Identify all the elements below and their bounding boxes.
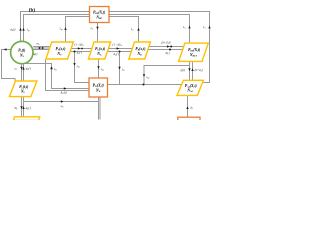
parallelogram P5 larvae: [9, 81, 37, 97]
arrow circle left loop left: [4, 48, 7, 50]
wire P2 to P3 pair: [107, 49, 132, 52]
parallelogram P4: [179, 43, 209, 61]
arrow P1P2 drop down: [73, 63, 75, 66]
center rect P_W: [89, 78, 108, 97]
wire circle bottom zigzag to rect: [23, 64, 90, 89]
parallelogram P3: [129, 42, 151, 59]
svg-text:(1−Δ)λv: (1−Δ)λv: [75, 43, 84, 48]
svg-text:PW(X,t): PW(X,t): [93, 83, 104, 88]
svg-text:AG(t): AG(t): [60, 90, 67, 95]
wire P5 bottom verticals: [22, 97, 24, 117]
wire circle to P1 lines: [33, 47, 50, 50]
svg-text:dE(·): dE(·): [26, 67, 31, 72]
wire P6 to bottom bar: [187, 95, 189, 117]
bottom-left partial parallelogram: [13, 117, 39, 121]
svg-text:As(t): As(t): [9, 28, 15, 33]
wire P1 corner drop to rect: [46, 59, 90, 91]
dot P3P4 lower: [169, 49, 171, 51]
wire P1 to P2 pair: [70, 49, 92, 52]
dot P2P3: [119, 51, 121, 53]
svg-text:dw(·): dw(·): [114, 52, 120, 57]
box P_BE top rect: [90, 7, 110, 23]
wire top bus third: [66, 17, 139, 44]
arrow P4 feedback down: [143, 74, 145, 77]
svg-text:dv(·): dv(·): [77, 51, 82, 56]
bottom-right partial rect: [178, 117, 200, 122]
arrow P2 bottom drop down: [97, 66, 99, 69]
arrow P6 bottom up: [186, 106, 188, 109]
arrow P5 bottom right up: [22, 106, 24, 109]
wire top bus outer: [21, 12, 210, 83]
arrow top rect to P2 down: [96, 27, 98, 30]
arrow P1P2 right: [78, 47, 81, 49]
wire P4 feedback to death bus: [144, 66, 190, 85]
arrow P2P3 right: [117, 47, 120, 49]
arrow P4 top vertical up: [188, 26, 190, 29]
svg-text:PBE(X,t): PBE(X,t): [93, 11, 105, 16]
wire dot P1P2 down to rect: [75, 52, 90, 83]
arrow P3 top vertical up: [137, 28, 139, 31]
wire P4 to P6 verticals: [190, 61, 193, 82]
arrow P5 bottom left down: [20, 106, 22, 109]
shape labels text band: [9, 25, 206, 111]
arrow AG line right: [64, 87, 67, 89]
wire top bus inner: [24, 15, 190, 44]
arrow P1 top vertical up: [64, 27, 66, 30]
wire top rect to P2: [97, 23, 99, 43]
arrow circle top right up: [22, 28, 24, 31]
arrow P4P6 left down: [188, 68, 190, 71]
arrow+dot circle-P1: [39, 47, 41, 49]
svg-text:d(·): d(·): [166, 51, 170, 55]
arrow P4P6 right up: [191, 68, 193, 71]
wire rect bottom drop (double): [99, 97, 101, 120]
parallelogram P2: [88, 42, 110, 59]
arrow P2P3 drop down: [118, 67, 120, 70]
arrow bottom horizontal right: [61, 100, 64, 102]
svg-text:(b): (b): [29, 7, 36, 14]
svg-text:(b+2λ)λ: (b+2λ)λ: [162, 40, 172, 44]
wire circle left loop: [2, 50, 16, 82]
arrow right outer vertical up: [208, 26, 210, 29]
arrow circle-P5 left down: [20, 67, 22, 70]
arrow+dot zigzag up: [51, 67, 53, 69]
wire P2 bottom down to center rect top: [98, 59, 100, 78]
wire death bus to P6: [108, 84, 182, 86]
arrow circle top left up: [19, 28, 21, 31]
parallelogram P6 adults: [177, 80, 203, 95]
svg-text:g(t): g(t): [181, 68, 185, 72]
wire circle bottom verticals to P5: [22, 64, 24, 81]
svg-text:dL(·): dL(·): [26, 106, 31, 111]
parallelogram P1: [46, 42, 74, 59]
svg-text:(b+dA): (b+dA): [195, 68, 203, 73]
dot P1P2: [74, 51, 76, 53]
wire dot P2P3 down to bus: [119, 52, 121, 85]
dot+arrow P3P4: [167, 45, 170, 47]
arrow circle-P5 right up: [22, 67, 24, 70]
dot on death bus: [143, 84, 145, 86]
wire P3 to P4 pair: [148, 47, 184, 50]
wire bottom horizontal: [24, 101, 99, 103]
circle S (egg/source): [11, 41, 33, 63]
